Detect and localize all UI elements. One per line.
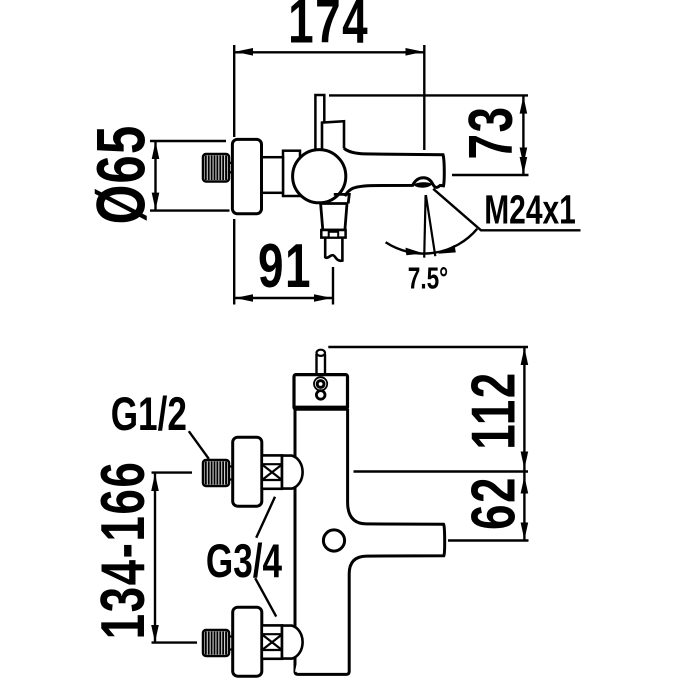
- dim line 91: [235, 297, 332, 299]
- dim line 112: [523, 347, 525, 472]
- svg-text:134-166: 134-166: [88, 461, 157, 640]
- dim 174 right extension line: [423, 45, 425, 150]
- handle screw circle: [323, 530, 344, 551]
- lower threaded nipple: [203, 630, 229, 656]
- arrow 73 bottom (doubled): [520, 148, 528, 166]
- cap ring outer: [314, 377, 327, 390]
- body column left edge: [294, 409, 297, 673]
- angle line vertical: [424, 195, 425, 258]
- lower union nut: [262, 625, 282, 658]
- arrow 112 top: [521, 348, 529, 366]
- extension line top for dim 112: [328, 346, 528, 348]
- svg-text:7.5°: 7.5°: [408, 261, 448, 295]
- arrow 134-166 top: [151, 474, 159, 492]
- threaded nipple (side view): [203, 154, 229, 182]
- upper stem: [227, 467, 234, 480]
- dim line 174: [235, 51, 424, 53]
- arrow dia65 bottom: [152, 193, 160, 211]
- leader M24x1: [433, 189, 580, 231]
- svg-text:73: 73: [456, 106, 525, 160]
- diverter quad below circle: [334, 194, 350, 203]
- arrow 91 left: [235, 294, 253, 302]
- cartridge block under lever: [322, 121, 344, 150]
- svg-text:G1/2: G1/2: [111, 387, 187, 440]
- upper union nut: [262, 455, 282, 488]
- dim 174 left extension line: [233, 45, 235, 137]
- arrow 112 bottom: [521, 452, 529, 470]
- svg-text:62: 62: [459, 476, 528, 530]
- arrow 174 right: [406, 48, 424, 56]
- arrow 62 bottom: [521, 523, 529, 541]
- extension line top of lever for dim 73: [329, 94, 528, 96]
- leader G3/4 lower: [255, 578, 276, 616]
- stem between nipple and flange (side view): [227, 163, 234, 173]
- svg-text:M24x1: M24x1: [484, 187, 576, 232]
- cap small circle: [316, 391, 325, 400]
- svg-text:Ø65: Ø65: [82, 125, 159, 225]
- bottom extension line 62: [448, 539, 529, 541]
- mixer body circle: [293, 150, 346, 203]
- upper dome: [282, 456, 303, 489]
- diverter collar: [321, 230, 345, 238]
- connector pipe: [262, 157, 284, 193]
- dia 65 bottom extension line: [150, 209, 230, 211]
- dim 134-166 bottom extension line: [152, 641, 198, 643]
- dim 91 right extension line: [332, 267, 334, 305]
- angle arc arrow right (points left at tilted leg): [438, 245, 456, 254]
- lower dome: [282, 626, 303, 659]
- dim 73 bottom extension line: [452, 174, 529, 176]
- wall flange (side view): [232, 139, 261, 213]
- svg-text:174: 174: [288, 0, 369, 56]
- leader G3/4 upper: [256, 497, 275, 538]
- upper wall flange: [233, 437, 262, 506]
- angle line tilted: [426, 195, 435, 256]
- lever handle bar (side view): [315, 95, 324, 150]
- body outline right with spout stub and bottom: [295, 409, 445, 674]
- collar notch: [329, 232, 339, 238]
- upper threaded nipple: [203, 460, 229, 486]
- angle arc arrow left (points right at vertical leg): [406, 248, 424, 256]
- dim line 73: [522, 96, 524, 175]
- lower wall flange: [233, 607, 262, 676]
- body cap: [294, 375, 348, 410]
- lower stem: [227, 637, 234, 650]
- dim 134-166 top extension line: [152, 471, 193, 473]
- arrow 62 top: [521, 476, 529, 494]
- dim line 62: [523, 472, 525, 541]
- cap heavy bottom line: [295, 406, 348, 409]
- arrow 174 left: [235, 48, 253, 56]
- arrow 73 top: [520, 96, 528, 114]
- diverter tapered body: [321, 204, 347, 231]
- arrow dia65 top: [152, 142, 160, 160]
- dim line dia65: [154, 141, 156, 211]
- svg-text:91: 91: [258, 231, 312, 300]
- leader G1/2: [189, 431, 209, 459]
- cap ring inner: [317, 381, 324, 388]
- arrow 91 right: [314, 294, 332, 302]
- arrow 134-166 bottom: [151, 625, 159, 643]
- body neck piece (tall): [283, 151, 300, 196]
- svg-text:G3/4: G3/4: [206, 534, 282, 587]
- mid extension line (112/62): [354, 470, 529, 472]
- aerator lens on spout underside: [413, 182, 432, 187]
- lever pin sides: [317, 354, 326, 373]
- dim 91 left extension line: [233, 219, 235, 305]
- spout outline: [344, 148, 444, 196]
- lever pin top ellipse: [317, 350, 326, 356]
- svg-text:112: 112: [459, 371, 528, 449]
- dia 65 top extension line: [150, 140, 226, 142]
- angle arc: [386, 229, 478, 254]
- hose with break: [325, 238, 342, 261]
- dim line 134-166: [154, 473, 156, 643]
